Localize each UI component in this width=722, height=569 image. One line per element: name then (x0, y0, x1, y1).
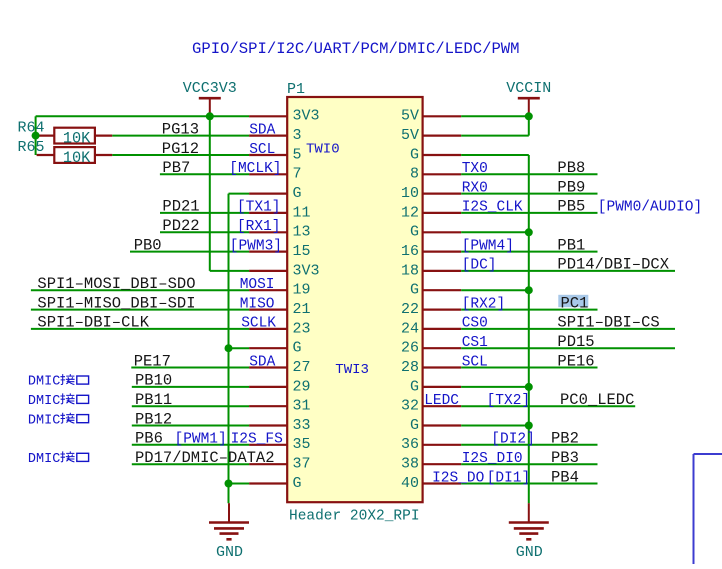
svg-text:GND: GND (216, 544, 243, 561)
svg-text:[PWM3]: [PWM3] (230, 238, 282, 254)
svg-text:TX0: TX0 (462, 161, 488, 177)
svg-text:8: 8 (410, 166, 419, 183)
svg-text:3V3: 3V3 (293, 262, 320, 279)
svg-text:5V: 5V (401, 127, 419, 144)
svg-text:19: 19 (293, 282, 311, 299)
svg-text:CS0: CS0 (462, 316, 488, 332)
svg-text:SPI1–MOSI_DBI–SDO: SPI1–MOSI_DBI–SDO (37, 275, 195, 293)
svg-text:24: 24 (401, 320, 419, 337)
svg-text:PB4: PB4 (551, 468, 579, 486)
svg-text:I2S_FS: I2S_FS (231, 432, 283, 448)
svg-text:DMIC: DMIC (28, 413, 60, 428)
svg-text:SDA: SDA (249, 122, 275, 138)
svg-text:PB9: PB9 (557, 178, 585, 196)
svg-text:33: 33 (293, 417, 311, 434)
svg-text:PB8: PB8 (557, 159, 585, 177)
svg-text:[TX2]: [TX2] (487, 393, 531, 409)
svg-text:15: 15 (293, 243, 311, 260)
svg-text:16: 16 (401, 243, 419, 260)
svg-text:18: 18 (401, 262, 419, 279)
svg-text:GND: GND (516, 544, 543, 561)
svg-text:26: 26 (401, 340, 419, 357)
svg-text:G: G (410, 378, 419, 395)
svg-text:SCL: SCL (462, 354, 488, 370)
svg-text:11: 11 (293, 204, 311, 221)
svg-text:PB12: PB12 (135, 410, 172, 428)
svg-text:G: G (410, 417, 419, 434)
svg-text:G: G (293, 475, 302, 492)
svg-text:PB2: PB2 (551, 430, 579, 448)
svg-text:29: 29 (293, 378, 311, 395)
svg-text:36: 36 (401, 436, 419, 453)
svg-text:G: G (410, 224, 419, 241)
svg-text:SPI1–DBI–CLK: SPI1–DBI–CLK (37, 314, 149, 332)
svg-text:5: 5 (293, 146, 302, 163)
svg-text:10: 10 (401, 185, 419, 202)
svg-text:23: 23 (293, 320, 311, 337)
svg-text:37: 37 (293, 456, 311, 473)
svg-text:38: 38 (401, 456, 419, 473)
svg-text:[RX2]: [RX2] (462, 296, 506, 312)
svg-text:CS1: CS1 (462, 335, 488, 351)
svg-text:SCLK: SCLK (241, 316, 276, 332)
svg-text:G: G (410, 146, 419, 163)
svg-text:PE17: PE17 (134, 352, 171, 370)
svg-text:22: 22 (401, 301, 419, 318)
svg-text:PD15: PD15 (557, 333, 594, 351)
svg-text:MOSI: MOSI (240, 277, 275, 293)
svg-text:G: G (293, 340, 302, 357)
svg-text:10K: 10K (63, 130, 91, 148)
svg-text:[TX1]: [TX1] (237, 200, 281, 216)
svg-text:G: G (293, 185, 302, 202)
svg-text:SPI1–DBI–CS: SPI1–DBI–CS (557, 314, 659, 332)
svg-text:PD21: PD21 (162, 198, 199, 216)
svg-text:PG12: PG12 (162, 140, 199, 158)
svg-text:21: 21 (293, 301, 311, 318)
svg-text:DMIC: DMIC (28, 375, 60, 390)
svg-text:[PWM1]: [PWM1] (175, 432, 227, 448)
svg-text:PD17/DMIC–DATA2: PD17/DMIC–DATA2 (135, 449, 275, 467)
svg-text:R65: R65 (17, 139, 44, 156)
svg-text:VCC3V3: VCC3V3 (183, 80, 237, 97)
svg-text:PB11: PB11 (135, 391, 172, 409)
svg-text:40: 40 (401, 475, 419, 492)
svg-text:PB5: PB5 (557, 198, 585, 216)
svg-text:P1: P1 (287, 81, 305, 98)
svg-text:I2S_DI0: I2S_DI0 (462, 451, 523, 467)
svg-text:12: 12 (401, 204, 419, 221)
svg-text:13: 13 (293, 224, 311, 241)
svg-text:SPI1–MISO_DBI–SDI: SPI1–MISO_DBI–SDI (37, 294, 195, 312)
svg-text:PC0_LEDC: PC0_LEDC (560, 391, 634, 409)
svg-text:MISO: MISO (240, 296, 275, 312)
svg-text:PB0: PB0 (134, 236, 162, 254)
svg-text:PE16: PE16 (557, 352, 594, 370)
svg-text:10K: 10K (63, 149, 91, 167)
svg-text:G: G (410, 282, 419, 299)
svg-text:31: 31 (293, 398, 311, 415)
svg-text:TWI3: TWI3 (335, 362, 369, 378)
svg-text:PD14/DBI–DCX: PD14/DBI–DCX (557, 256, 669, 274)
svg-text:PC1: PC1 (561, 294, 589, 312)
svg-text:3V3: 3V3 (293, 108, 320, 125)
svg-text:5V: 5V (401, 108, 419, 125)
svg-text:GPIO/SPI/I2C/UART/PCM/DMIC/LED: GPIO/SPI/I2C/UART/PCM/DMIC/LEDC/PWM (192, 40, 520, 58)
svg-text:27: 27 (293, 359, 311, 376)
svg-text:[DC]: [DC] (462, 258, 497, 274)
svg-text:[DI2]: [DI2] (491, 432, 535, 448)
svg-text:[RX1]: [RX1] (237, 219, 281, 235)
svg-text:Header 20X2_RPI: Header 20X2_RPI (289, 509, 420, 525)
svg-text:[PWM4]: [PWM4] (462, 238, 514, 254)
svg-text:SCL: SCL (249, 142, 275, 158)
svg-text:28: 28 (401, 359, 419, 376)
svg-text:I2S_DO: I2S_DO (432, 470, 484, 486)
svg-text:DMIC: DMIC (28, 452, 60, 467)
svg-text:PG13: PG13 (162, 120, 199, 138)
svg-text:PB3: PB3 (551, 449, 579, 467)
svg-text:LEDC: LEDC (424, 393, 459, 409)
svg-text:SDA: SDA (249, 354, 275, 370)
svg-text:[PWM0/AUDIO]: [PWM0/AUDIO] (598, 200, 702, 216)
svg-text:TWI0: TWI0 (306, 141, 340, 157)
svg-text:PB6: PB6 (135, 430, 163, 448)
svg-text:PB10: PB10 (135, 372, 172, 390)
svg-text:PB7: PB7 (162, 159, 190, 177)
svg-text:35: 35 (293, 436, 311, 453)
svg-text:[MCLK]: [MCLK] (229, 161, 281, 177)
svg-text:PB1: PB1 (557, 236, 585, 254)
svg-text:R64: R64 (17, 119, 44, 136)
svg-text:[DI1]: [DI1] (487, 470, 531, 486)
svg-text:32: 32 (401, 398, 419, 415)
svg-text:RX0: RX0 (462, 180, 488, 196)
svg-text:7: 7 (293, 166, 302, 183)
svg-text:DMIC: DMIC (28, 394, 60, 409)
svg-text:VCCIN: VCCIN (506, 80, 551, 97)
svg-text:3: 3 (293, 127, 302, 144)
svg-text:PD22: PD22 (162, 217, 199, 235)
svg-text:I2S_CLK: I2S_CLK (462, 200, 523, 216)
